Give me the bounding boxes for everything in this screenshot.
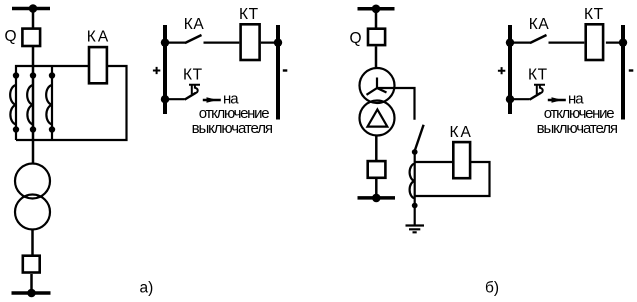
wire load box to bottom busbar (b) — [375, 179, 378, 198]
wire busbar to Q (b) — [375, 9, 378, 28]
junction dot top branch (b) — [506, 38, 514, 46]
svg-text:КА: КА — [87, 29, 110, 46]
wire Q to transformer (b) — [375, 47, 378, 70]
breaker contact blade in neutral (b) — [415, 125, 424, 150]
load box (b) — [368, 161, 386, 178]
relay coil KA box (b) — [453, 142, 470, 178]
junction dot on minus rail (a) — [274, 38, 282, 46]
svg-text:КТ: КТ — [183, 67, 203, 84]
CT winding arcs phase 1 (a) — [10, 85, 16, 125]
svg-text:выключателя: выключателя — [537, 120, 618, 137]
transformer T winding 2 (a) — [15, 195, 50, 230]
CT winding arcs phase 2 (a) — [27, 85, 33, 125]
plus rail (b) — [508, 25, 512, 114]
KA contact blade (a) — [185, 35, 202, 43]
relay coil KA box (a) — [89, 47, 107, 83]
wire to KT contact (a) — [165, 98, 185, 100]
top busbar (a) — [12, 7, 50, 11]
junction dot lower branch (a) — [161, 95, 169, 103]
transformer winding 2 circle (b) — [360, 101, 395, 136]
CT winding arcs phase 3 (a) — [46, 85, 52, 125]
svg-text:б): б) — [485, 279, 499, 296]
svg-text:а): а) — [140, 279, 154, 296]
wire contact to KT coil (b) — [549, 41, 585, 43]
wire load box to bottom busbar (a) — [30, 274, 33, 293]
svg-text:выключателя: выключателя — [192, 120, 273, 137]
neutral wire through CT (b) — [414, 150, 416, 225]
wire KT coil to minus rail (a) — [261, 41, 278, 43]
svg-text:КТ: КТ — [584, 6, 604, 23]
svg-text:Q: Q — [350, 30, 362, 47]
CT secondary loop (b) — [415, 162, 490, 196]
svg-text:КА: КА — [450, 124, 473, 141]
bottom busbar (b) — [358, 196, 396, 200]
label plus (a) — [153, 67, 160, 74]
arrow to trip (b) — [548, 99, 566, 101]
CT phase line 3 (a) — [51, 66, 53, 140]
time relay coil KT box (b) — [586, 24, 603, 60]
CT winding dots phase 2 (a) — [30, 72, 36, 78]
transformer T winding 1 (a) — [15, 164, 50, 199]
neutral tap wire from wye point (b) — [377, 88, 415, 120]
wire transformer to load box (a) — [31, 230, 34, 256]
svg-text:Q: Q — [5, 28, 17, 45]
ground symbol (b) — [406, 226, 425, 233]
load box (a) — [23, 256, 40, 273]
junction dot below CT (b) — [412, 203, 418, 209]
CT winding arcs (b) — [410, 164, 415, 199]
top busbar (b) — [358, 7, 395, 11]
wye symbol in winding 1 (b) — [367, 78, 387, 95]
bottom busbar (a) — [12, 291, 51, 295]
svg-text:КА: КА — [529, 16, 550, 33]
junction dot above CT (b) — [412, 149, 418, 155]
wire busbar to Q (a) — [32, 9, 35, 29]
delta symbol in winding 2 (b) — [368, 110, 388, 127]
KA contact blade (b) — [530, 35, 547, 43]
wire to KT contact (b) — [510, 98, 530, 100]
svg-text:КТ: КТ — [239, 6, 259, 23]
minus rail (a) — [276, 25, 280, 120]
label minus (b) — [629, 69, 634, 71]
CT secondary loop (a) — [16, 66, 127, 140]
plus rail (a) — [163, 25, 167, 114]
time relay coil KT box (a) — [241, 24, 260, 60]
breaker Q box (a) — [22, 29, 40, 46]
node on bottom busbar (b) — [372, 194, 381, 203]
node on bottom busbar (a) — [27, 289, 36, 298]
junction dot lower branch (b) — [506, 95, 514, 103]
arrow to trip (a) — [203, 99, 221, 101]
wire contact to KT coil (a) — [204, 41, 240, 43]
KT time contact delay symbol (b) — [534, 85, 545, 95]
label minus (a) — [283, 69, 288, 71]
svg-text:КА: КА — [184, 16, 205, 33]
KT time contact blade (b) — [530, 93, 541, 100]
wire transformer to load box (b) — [375, 136, 378, 161]
junction dot top branch (a) — [161, 38, 169, 46]
wire Q to transformer (a) — [32, 47, 35, 164]
KT time contact delay symbol (a) — [189, 85, 200, 95]
wire to KA contact (a) — [165, 41, 186, 43]
minus rail (b) — [621, 25, 625, 120]
breaker Q box (b) — [368, 29, 385, 45]
KT time contact blade (a) — [185, 93, 196, 100]
CT winding dots phase 3 (a) — [49, 72, 55, 78]
wire to KA contact (b) — [510, 41, 531, 43]
wire KT coil to minus rail (b) — [606, 41, 623, 43]
junction dot on minus rail (b) — [619, 38, 627, 46]
node on top busbar (a) — [29, 4, 38, 13]
svg-text:КТ: КТ — [528, 67, 548, 84]
CT winding dots phase 1 (a) — [13, 72, 19, 78]
label plus (b) — [498, 67, 505, 74]
transformer winding 1 circle (b) — [360, 68, 395, 103]
node on top busbar (b) — [372, 5, 381, 14]
